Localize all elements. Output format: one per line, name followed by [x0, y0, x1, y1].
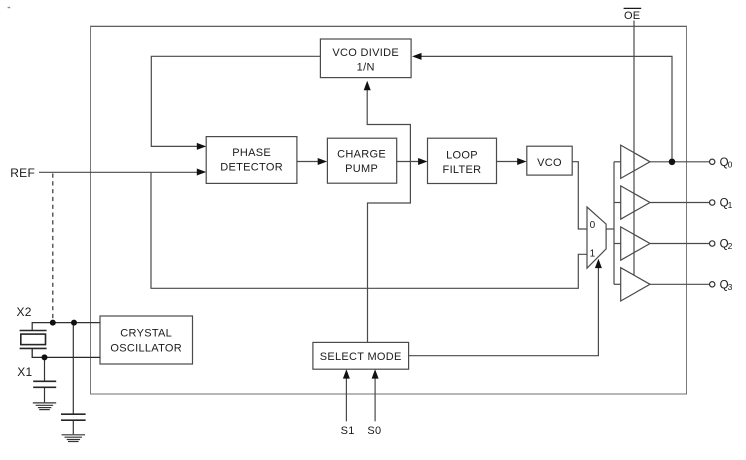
wire REF input to phase detector: [39, 171, 198, 173]
wire stub to buffer A2: [614, 202, 621, 204]
arrowhead S0 into select mode: [372, 369, 379, 378]
junction dot X1/C1 node: [42, 354, 48, 360]
wire stub to buffer A1: [614, 161, 621, 163]
buffer A2 (Q1): [621, 186, 650, 219]
wire OE input to buffer enables: [633, 21, 635, 276]
wire REF dashed to crystal: [52, 174, 54, 321]
svg-text:1/N: 1/N: [357, 62, 375, 74]
wire buffer A1 to Q0 terminal: [650, 161, 710, 163]
crystal Y1 top plate: [20, 330, 47, 332]
arrowhead into loop filter: [418, 158, 427, 165]
svg-text:2: 2: [728, 241, 733, 251]
svg-text:S1: S1: [341, 425, 355, 437]
label CHARGE PUMP: [337, 149, 386, 175]
block U4 LOOP FILTER: [428, 138, 497, 183]
buffer A1 (Q0): [621, 145, 650, 178]
ground symbol G2: [62, 435, 85, 442]
arrowhead S1 into select mode: [343, 369, 350, 378]
terminal Q2: [710, 241, 715, 246]
wire phase detector to charge pump: [297, 161, 319, 163]
label mux input 1: [590, 249, 596, 260]
terminal Q0: [710, 159, 715, 164]
wire capacitor C2 to ground: [72, 421, 74, 435]
arrowhead into VCO divide right (feedback): [412, 53, 421, 60]
wire VCO divide output to phase detector: [151, 56, 320, 146]
artifact mark top-left: [8, 7, 11, 8]
svg-text:FILTER: FILTER: [443, 164, 482, 176]
svg-text:OSCILLATOR: OSCILLATOR: [110, 343, 182, 355]
wire stub to buffer A3: [614, 243, 621, 245]
svg-text:X2: X2: [17, 305, 32, 319]
block U1 VCO DIVIDE 1/N: [320, 39, 411, 78]
arrowhead into charge pump: [318, 158, 327, 165]
svg-text:CRYSTAL: CRYSTAL: [120, 328, 172, 340]
wire buffer input bus: [613, 162, 615, 284]
wire X2 to capacitor C2: [72, 323, 74, 414]
label mux input 0: [590, 220, 596, 231]
svg-text:SELECT MODE: SELECT MODE: [320, 351, 402, 363]
buffer A3 (Q2): [621, 227, 650, 260]
svg-text:S0: S0: [367, 425, 381, 437]
svg-text:PHASE: PHASE: [232, 147, 271, 159]
block U7 CRYSTAL OSCILLATOR: [100, 316, 193, 364]
wire charge pump to loop filter: [396, 161, 419, 163]
label PHASE DETECTOR: [220, 147, 283, 174]
label CRYSTAL OSCILLATOR: [110, 328, 182, 355]
arrowhead into VCO: [517, 158, 526, 165]
wire VCO output to mux input 0: [572, 162, 587, 229]
wire capacitor C1 to ground: [44, 388, 46, 403]
capacitor C2: [61, 414, 86, 420]
wire S0 input: [374, 378, 376, 421]
crystal Y1 body: [21, 334, 46, 345]
wire buffer A4 to Q3 terminal: [650, 283, 710, 285]
svg-text:0: 0: [590, 220, 596, 231]
wire buffer A2 to Q1 terminal: [650, 202, 710, 204]
label VCO: [537, 157, 562, 169]
block U3 CHARGE PUMP: [327, 138, 396, 183]
svg-text:REF: REF: [10, 166, 35, 180]
svg-text:VCO DIVIDE: VCO DIVIDE: [332, 47, 399, 59]
chip outline box: [90, 25, 687, 27]
svg-text:1: 1: [590, 249, 596, 260]
wire X2 net: [32, 323, 100, 331]
terminal Q3: [710, 282, 715, 287]
wire REF branch down: [151, 172, 587, 288]
junction dot Q0 feedback node: [669, 159, 676, 166]
svg-text:PUMP: PUMP: [345, 163, 378, 175]
ground symbol G1: [33, 403, 56, 410]
terminal Q1: [710, 200, 715, 205]
arrowhead into VCO divide bottom (N control): [364, 81, 371, 90]
arrowhead into phase detector top input: [197, 143, 206, 150]
wire select mode to VCO divide N control: [367, 90, 410, 343]
svg-text:OE: OE: [624, 10, 641, 22]
capacitor C1: [33, 381, 56, 387]
block U6 SELECT MODE: [313, 342, 409, 369]
wire X1 to capacitor C1: [44, 357, 46, 380]
junction dot X2/REF dashed node: [50, 320, 56, 326]
wire X1 net: [32, 348, 100, 357]
svg-text:VCO: VCO: [537, 157, 562, 169]
junction dot X2/C2 node: [71, 320, 77, 326]
wire select mode to mux select: [409, 268, 599, 356]
wire S1 input: [345, 378, 347, 421]
buffer A4 (Q3): [621, 268, 650, 301]
wire loop filter to VCO: [497, 161, 519, 163]
svg-text:DETECTOR: DETECTOR: [220, 161, 283, 173]
arrowhead into phase detector bottom input (REF): [197, 169, 206, 176]
arrowhead into mux select: [595, 259, 602, 268]
svg-text:LOOP: LOOP: [446, 149, 478, 161]
label VCO DIVIDE 1/N: [332, 47, 399, 73]
wire buffer A3 to Q2 terminal: [650, 243, 710, 245]
mux M1: [587, 207, 606, 268]
wire Q0 feedback to VCO divide: [422, 56, 673, 161]
svg-text:1: 1: [728, 200, 733, 210]
svg-text:CHARGE: CHARGE: [337, 149, 386, 161]
svg-text:X1: X1: [17, 365, 32, 379]
block U2 PHASE DETECTOR: [206, 137, 297, 184]
svg-text:0: 0: [728, 160, 733, 170]
block U5 VCO: [527, 146, 572, 175]
svg-text:3: 3: [728, 282, 733, 292]
label SELECT MODE: [320, 351, 402, 363]
wire mux output to buffer bus: [606, 228, 614, 230]
crystal Y1 bottom plate: [20, 347, 47, 349]
label LOOP FILTER: [443, 149, 482, 176]
wire stub to buffer A4: [614, 283, 621, 285]
